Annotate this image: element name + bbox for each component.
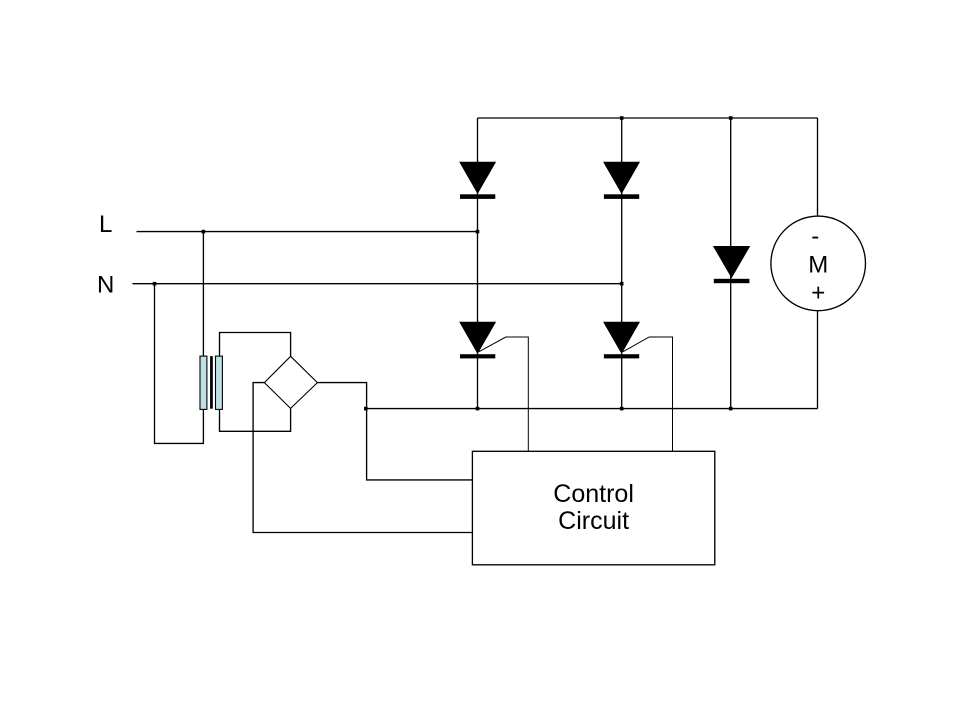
wire motor top lead [817,118,819,217]
wire bottom rail [366,408,818,410]
svg-text:M: M [808,251,828,278]
motor M [771,216,866,311]
thyristor Q2 [604,322,639,358]
wire left bridge leg [477,118,479,409]
diode D2 [604,162,639,199]
wire transformer secondary top to bridge [220,333,291,357]
wire motor bottom lead [817,310,819,409]
wire L line [137,231,478,233]
svg-text:L: L [99,211,112,238]
wire bridge left output to control circuit [253,383,472,533]
node N-bridge junction [620,282,624,286]
diode D3 freewheel [714,247,750,284]
wire Q2 gate [623,337,673,452]
svg-text:Control: Control [553,480,634,508]
wire top rail [478,117,818,119]
svg-text:+: + [811,279,825,306]
node bottom rail right-leg junction [620,407,624,411]
wire right bridge leg [621,118,623,409]
svg-text:N: N [97,271,114,298]
node bottom rail bridge junction [364,407,368,411]
transformer T1 primary winding [200,356,207,409]
node bottom rail left-leg junction [476,407,480,411]
svg-text:Circuit: Circuit [558,507,629,535]
diode D1 [460,162,495,199]
node L-bridge junction [476,230,480,234]
thyristor Q1 [460,322,495,358]
node top rail right-leg junction [620,116,624,120]
wire Q1 gate [479,337,528,452]
transformer T1 core [210,356,213,409]
wire N to transformer primary bottom [155,284,204,444]
wire L to transformer primary top [202,232,204,357]
wire bridge right output to bottom rail and control circuit [317,383,472,480]
wire N line [132,283,621,285]
wire transformer secondary bottom to bridge [220,408,291,431]
svg-text:-: - [811,223,819,250]
rectifier bridge BR1 [264,356,317,408]
node N-drop junction [153,282,157,286]
node L-primary junction [202,230,206,234]
wire freewheel branch [730,118,732,409]
control circuit box [472,451,714,565]
transformer T1 secondary winding [216,356,223,409]
node top rail freewheel junction [729,116,733,120]
node bottom rail freewheel junction [729,407,733,411]
